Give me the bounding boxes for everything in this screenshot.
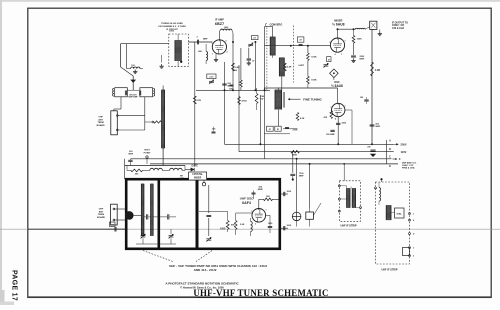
svg-text:MMF: MMF — [299, 176, 304, 178]
svg-text:TUNING SLUG USED: TUNING SLUG USED — [161, 23, 183, 25]
svg-text:IF OUTPUT TO: IF OUTPUT TO — [392, 22, 408, 24]
svg-text:PINS & CHA: PINS & CHA — [402, 167, 415, 170]
svg-text:UHF IF STRIP: UHF IF STRIP — [340, 225, 356, 228]
svg-text:IF CIRCUIT: IF CIRCUIT — [166, 29, 178, 31]
svg-text:1: 1 — [341, 54, 342, 56]
svg-text:½ 6AU8: ½ 6AU8 — [332, 23, 345, 27]
svg-text:ANT: ANT — [99, 210, 104, 213]
svg-text:47K: 47K — [197, 99, 201, 102]
svg-text:47K: 47K — [324, 116, 328, 119]
svg-text:X: X — [399, 157, 401, 161]
svg-text:A: A — [389, 140, 391, 143]
svg-text:7: 7 — [212, 54, 213, 56]
svg-text:AND 414 - 24U2: AND 414 - 24U2 — [194, 268, 217, 272]
svg-text:5: 5 — [252, 211, 253, 213]
svg-text:5.6K: 5.6K — [240, 224, 245, 226]
svg-text:6BZ7: 6BZ7 — [215, 22, 224, 26]
svg-text:CRYSTAL: CRYSTAL — [192, 173, 203, 176]
svg-text:AMP: AMP — [179, 177, 184, 180]
svg-text:UHF-VHF TUNER SCHEMATIC: UHF-VHF TUNER SCHEMATIC — [193, 288, 328, 298]
svg-text:MMF: MMF — [258, 189, 264, 191]
svg-text:3: 3 — [413, 248, 414, 250]
svg-text:UHF - VHF TUNER PART NO 90: UHF - VHF TUNER PART NO 9051 USED WITH C… — [169, 264, 267, 268]
svg-text:1: 1 — [266, 210, 267, 212]
svg-text:MMF: MMF — [228, 86, 233, 88]
svg-text:2: 2 — [413, 256, 414, 258]
svg-text:7: 7 — [345, 41, 346, 43]
svg-text:FINE TUNING: FINE TUNING — [303, 97, 322, 101]
svg-text:500 MMF: 500 MMF — [326, 134, 335, 136]
svg-text:DIAL: DIAL — [397, 213, 403, 216]
svg-text:100K: 100K — [311, 56, 317, 58]
svg-text:MMF: MMF — [129, 154, 134, 156]
svg-text:6.8K: 6.8K — [235, 67, 240, 69]
svg-text:MIXER: MIXER — [194, 177, 202, 179]
svg-text:4.2M: 4.2M — [375, 69, 380, 72]
svg-text:TERM: TERM — [97, 122, 103, 124]
svg-text:½ 6AU8: ½ 6AU8 — [331, 84, 343, 88]
svg-text:D: D — [389, 165, 391, 168]
svg-text:A PHOTOFACT STANDARD NOTATI: A PHOTOFACT STANDARD NOTATION SCHEMATIC — [165, 282, 239, 286]
svg-text:BOARD: BOARD — [97, 216, 105, 219]
svg-text:250V: 250V — [401, 143, 407, 147]
svg-text:2: 2 — [227, 52, 228, 54]
svg-text:TERM: TERM — [98, 214, 104, 216]
svg-text:6.8K: 6.8K — [287, 66, 292, 68]
svg-text:100K: 100K — [311, 80, 317, 82]
svg-text:6.8PF: 6.8PF — [299, 65, 305, 67]
svg-text:9: 9 — [226, 41, 227, 43]
svg-text:4.5K: 4.5K — [300, 117, 305, 120]
svg-text:ANT: ANT — [98, 118, 103, 121]
svg-text:470Ω: 470Ω — [242, 100, 247, 103]
svg-text:1000: 1000 — [110, 224, 114, 226]
svg-text:MMF: MMF — [203, 39, 208, 41]
svg-text:C: C — [389, 156, 391, 159]
svg-text:1: 1 — [212, 43, 213, 45]
svg-text:3: 3 — [255, 224, 256, 226]
svg-text:POINT: POINT — [144, 152, 151, 154]
svg-text:MMF MMF: MMF MMF — [128, 97, 138, 99]
svg-text:47: 47 — [277, 128, 279, 131]
svg-text:PAGE 17: PAGE 17 — [11, 270, 18, 301]
svg-text:MMF: MMF — [376, 126, 381, 128]
svg-text:1: 1 — [413, 214, 414, 216]
svg-text:MMF: MMF — [360, 59, 365, 61]
svg-text:CONVERG: CONVERG — [270, 23, 283, 26]
svg-text:10K: 10K — [266, 196, 270, 198]
svg-text:4: 4 — [335, 53, 336, 56]
svg-text:DEF AND S.O.: DEF AND S.O. — [402, 161, 417, 164]
svg-text:VHF: VHF — [98, 117, 103, 119]
svg-text:B: B — [389, 148, 391, 151]
svg-text:270K: 270K — [293, 129, 298, 131]
svg-text:6AF4: 6AF4 — [242, 201, 251, 205]
svg-text:TEST: TEST — [144, 150, 150, 152]
svg-text:100K: 100K — [357, 39, 363, 41]
svg-text:1000: 1000 — [220, 228, 226, 231]
svg-text:CONV. I OF: CONV. I OF — [392, 25, 405, 27]
svg-text:UHF IF STRIP: UHF IF STRIP — [381, 269, 397, 272]
svg-text:4.7: 4.7 — [253, 37, 256, 40]
svg-text:C23 & CHA: C23 & CHA — [392, 27, 404, 30]
svg-text:UHF: UHF — [99, 209, 104, 211]
svg-text:47: 47 — [269, 128, 271, 131]
svg-text:BOARD: BOARD — [97, 124, 105, 127]
svg-text:ON CHANNELS 2 - 6 THRU: ON CHANNELS 2 - 6 THRU — [158, 25, 186, 28]
svg-text:110V: 110V — [401, 150, 407, 154]
svg-text:220: 220 — [367, 147, 370, 149]
svg-text:© Howard W. Sams & Co., Inc. 1: © Howard W. Sams & Co., Inc. 1956 — [180, 285, 224, 289]
svg-text:8: 8 — [335, 119, 336, 121]
